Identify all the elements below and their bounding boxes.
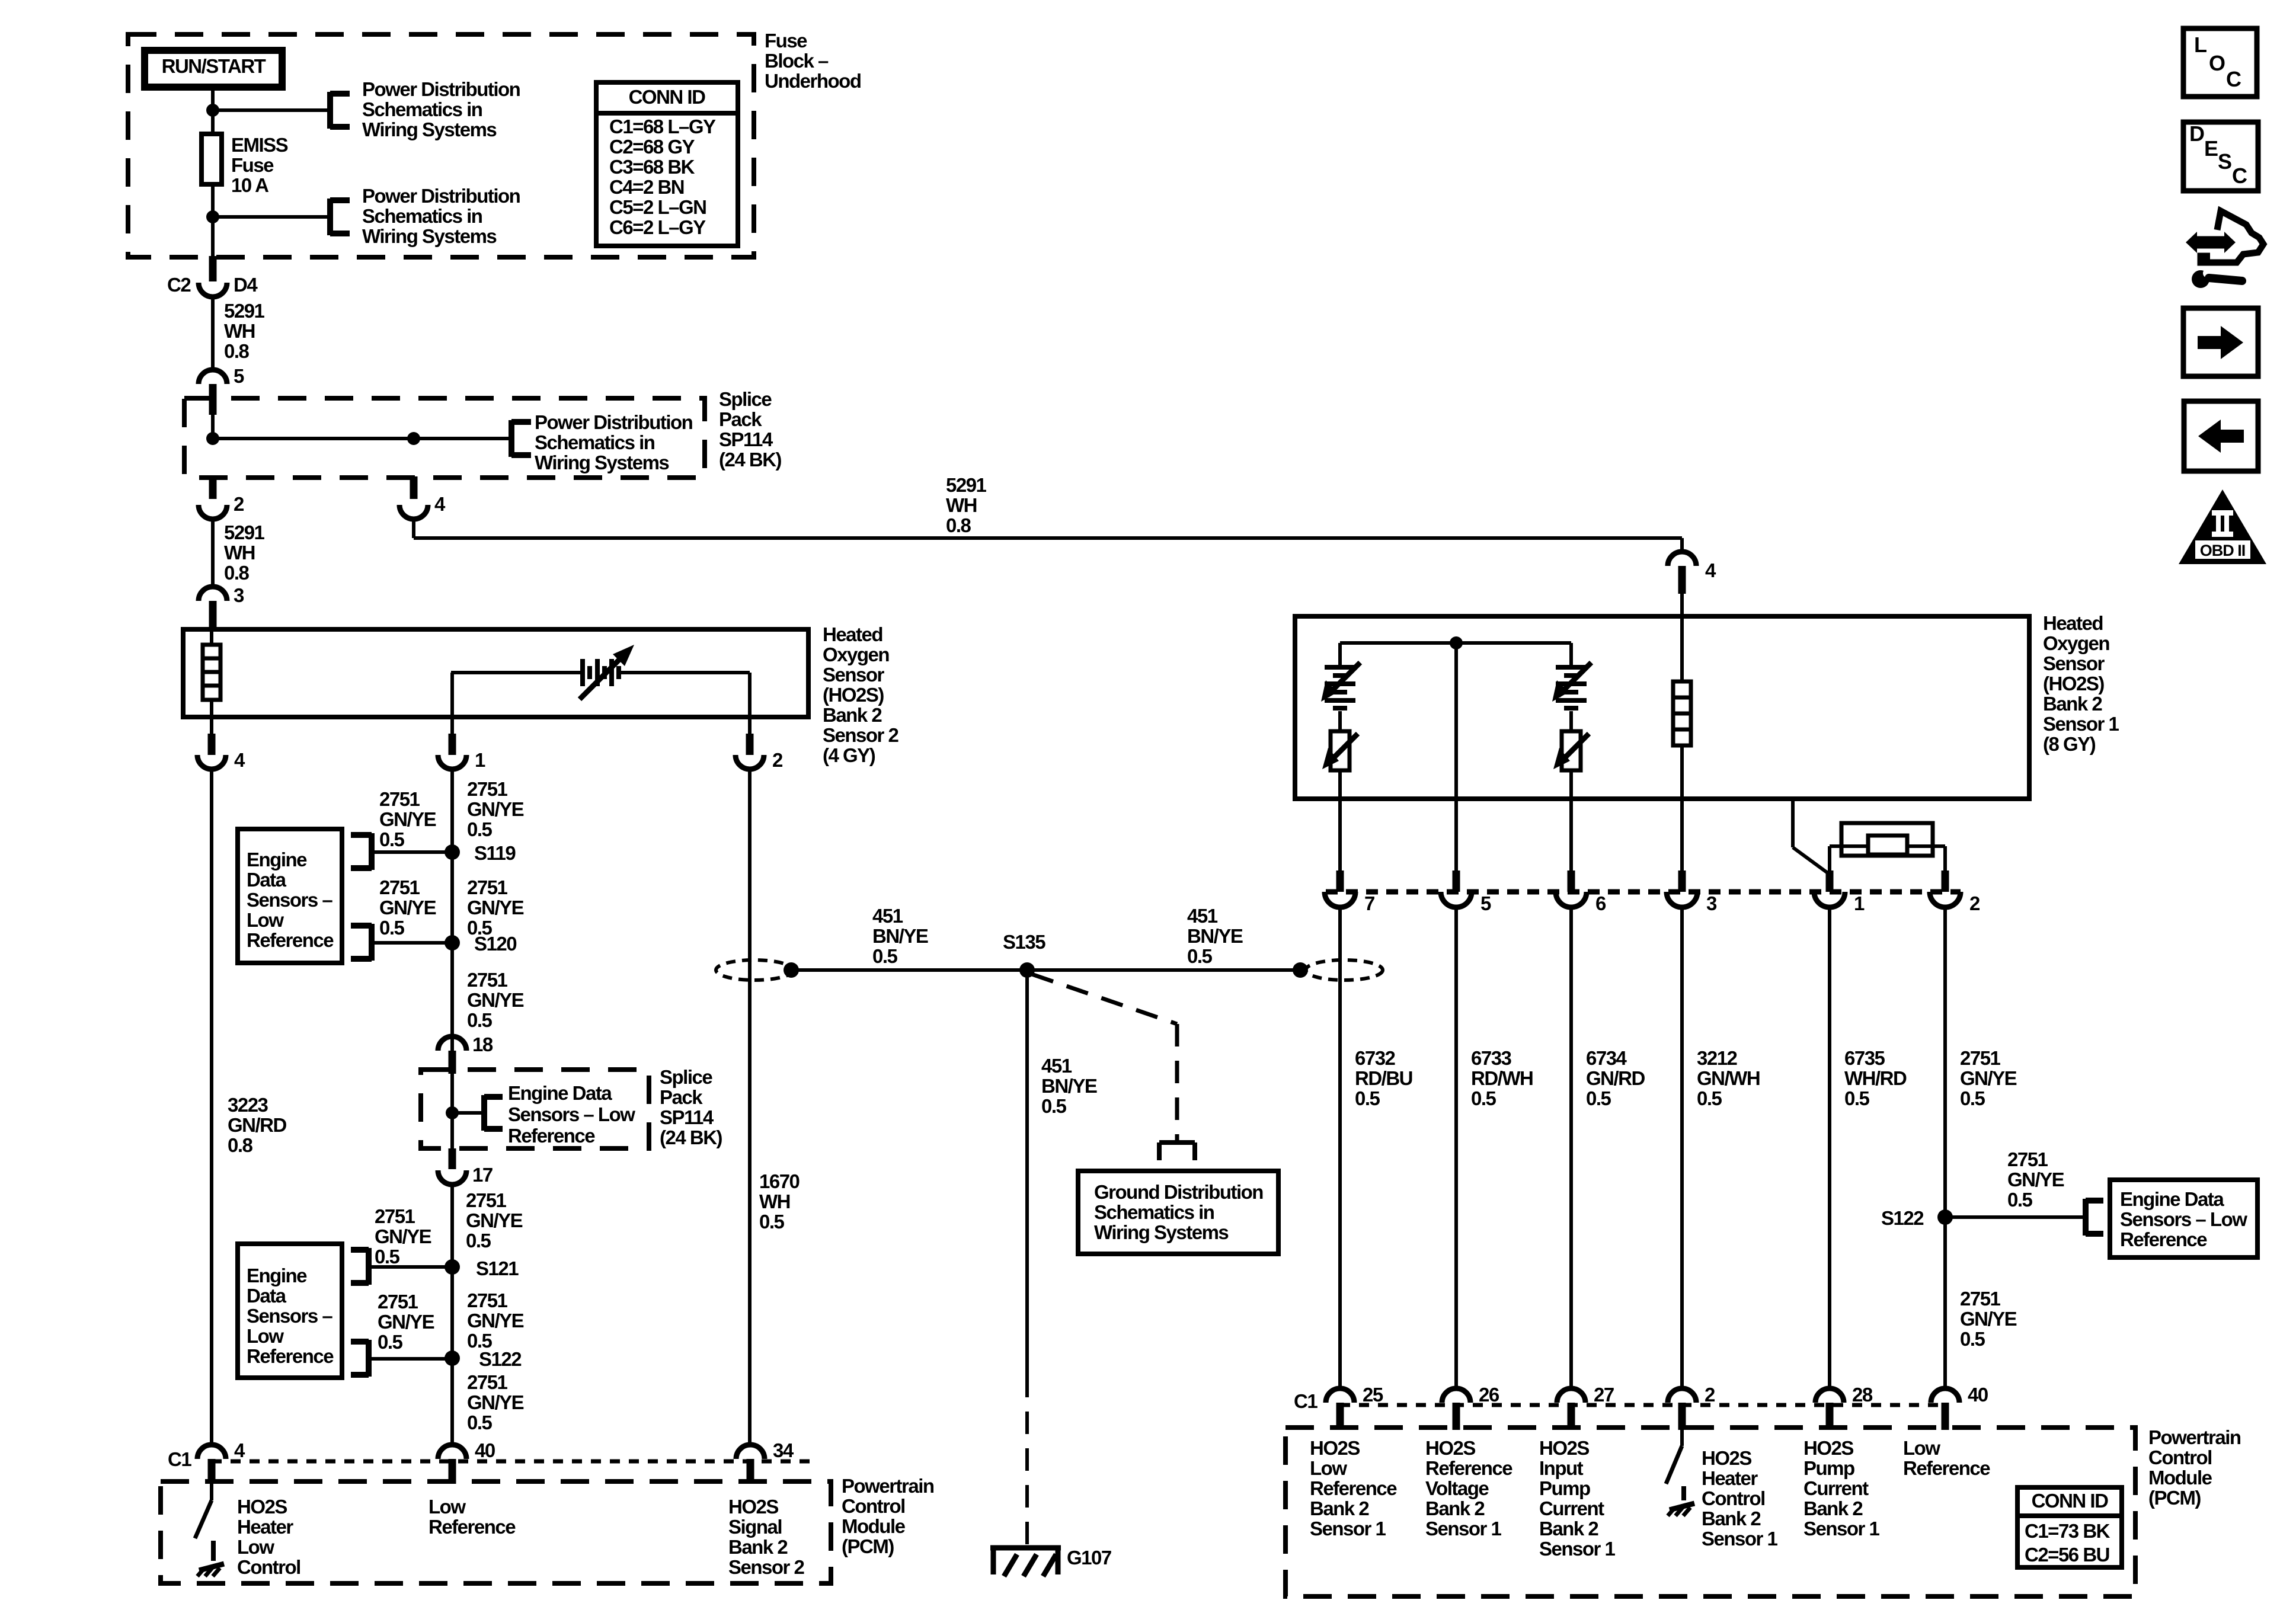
icon forward arrow box xyxy=(2183,308,2258,376)
svg-text:26: 26 xyxy=(1479,1384,1499,1406)
wire RUN/START to EMISS fuse xyxy=(211,90,215,134)
svg-text:Reference: Reference xyxy=(247,929,334,951)
svg-text:D: D xyxy=(2189,121,2204,146)
chassis ground (pcm left) xyxy=(199,1564,224,1570)
svg-text:34: 34 xyxy=(773,1439,794,1461)
svg-text:Schematics in: Schematics in xyxy=(1094,1201,1214,1223)
connector pin 18 xyxy=(438,1036,466,1051)
node junction on ignition feed lower xyxy=(206,210,219,223)
connector pin 3 stub xyxy=(209,601,217,629)
svg-text:10 A: 10 A xyxy=(231,174,268,196)
node splice S119 xyxy=(445,844,460,860)
wire 2751 GN/YE pin1 to S119 xyxy=(450,769,454,852)
connector pin 4 (splice) xyxy=(399,505,428,519)
wire internal top bus right sensor xyxy=(1340,641,1571,645)
connector sensor1 pin 1 stub xyxy=(1826,870,1834,892)
wire 2751 GN/YE pin2 to pin40 upper xyxy=(1943,907,1947,1217)
svg-text:2751: 2751 xyxy=(2007,1148,2048,1170)
svg-text:GN/YE: GN/YE xyxy=(1960,1067,2017,1089)
node junction on ignition feed upper xyxy=(206,104,219,117)
svg-text:SP114: SP114 xyxy=(660,1106,714,1128)
connector pin 17 stub xyxy=(449,1148,456,1169)
svg-text:6734: 6734 xyxy=(1586,1047,1627,1069)
sensing cell with arrow (pin 6 branch) xyxy=(1556,665,1587,670)
off-page bracket to S122 xyxy=(366,1340,372,1377)
svg-text:2751: 2751 xyxy=(1960,1288,2001,1310)
sensing cell with arrow (pin 7 branch) xyxy=(1325,665,1355,670)
wire splice SP114 bus xyxy=(213,437,511,440)
icon DESC box xyxy=(2183,122,2258,191)
svg-text:4: 4 xyxy=(234,749,245,771)
svg-text:Reference: Reference xyxy=(1310,1477,1397,1499)
connector pin C2-D4 stub xyxy=(209,256,217,281)
svg-text:2751: 2751 xyxy=(1960,1047,2001,1069)
svg-text:Sensor 2: Sensor 2 xyxy=(728,1556,805,1578)
svg-text:3212: 3212 xyxy=(1697,1047,1738,1069)
svg-text:0.5: 0.5 xyxy=(1960,1087,1985,1109)
svg-text:WH: WH xyxy=(224,320,255,342)
wire 1670 WH pin2 to pin34 xyxy=(748,769,752,1446)
CONN ID table (PCM) xyxy=(2017,1487,2122,1567)
svg-text:WH/RD: WH/RD xyxy=(1844,1067,1907,1089)
connector sensor1 pin 3 xyxy=(1667,892,1697,907)
svg-text:Bank 2: Bank 2 xyxy=(1803,1497,1863,1519)
svg-text:Input: Input xyxy=(1539,1457,1584,1479)
wire bracket to S119 xyxy=(372,850,452,854)
connector pcm pin 27 stub xyxy=(1568,1403,1575,1430)
chassis ground (pcm right) xyxy=(1670,1503,1694,1510)
ground G107 xyxy=(990,1545,1061,1551)
connector sensor1 pin 6 stub xyxy=(1568,870,1575,892)
wire S122 to pin 40 right xyxy=(1943,1217,1947,1390)
svg-text:Sensor 2: Sensor 2 xyxy=(823,724,899,746)
svg-text:Reference: Reference xyxy=(508,1125,595,1147)
svg-text:SP114: SP114 xyxy=(719,428,773,450)
svg-text:5291: 5291 xyxy=(224,300,265,322)
connector pcm left pin 4 stub xyxy=(208,1459,216,1484)
svg-text:E: E xyxy=(2204,136,2218,161)
connector sensor1 pin 2 xyxy=(1930,892,1961,907)
variable resistor (pin 7 branch) xyxy=(1338,711,1342,731)
off-page bracket power distribution 3 xyxy=(509,420,514,457)
connector sensor1 pin 5 stub xyxy=(1453,870,1460,892)
svg-text:Underhood: Underhood xyxy=(765,70,861,92)
wire S121 to S122 xyxy=(450,1267,454,1358)
svg-text:0.5: 0.5 xyxy=(759,1211,785,1233)
svg-text:Sensor 1: Sensor 1 xyxy=(1539,1538,1616,1560)
wire to power distribution callout 2 xyxy=(213,215,330,219)
svg-text:0.8: 0.8 xyxy=(228,1134,253,1156)
connector sensor2 pin 2 xyxy=(736,755,764,769)
engine data sensors box 2 xyxy=(238,1244,342,1378)
svg-text:451: 451 xyxy=(1041,1055,1072,1077)
svg-text:O: O xyxy=(2209,51,2225,75)
connector pin 4 stub (splice) xyxy=(410,476,418,499)
svg-text:Power Distribution: Power Distribution xyxy=(535,411,693,433)
svg-text:EMISS: EMISS xyxy=(231,134,288,156)
svg-text:HO2S: HO2S xyxy=(728,1496,778,1518)
connector sensor1 pin 2 stub xyxy=(1942,870,1949,892)
svg-text:Wiring Systems: Wiring Systems xyxy=(362,119,496,140)
svg-text:Wiring Systems: Wiring Systems xyxy=(535,452,669,473)
svg-text:Data: Data xyxy=(247,1285,287,1307)
svg-text:GN/YE: GN/YE xyxy=(467,897,524,918)
svg-text:0.5: 0.5 xyxy=(467,818,493,840)
svg-text:Reference: Reference xyxy=(2120,1228,2207,1250)
splice pack SP114 dashed box xyxy=(184,398,705,478)
svg-text:17: 17 xyxy=(472,1164,493,1186)
svg-text:0.5: 0.5 xyxy=(872,945,898,967)
svg-text:Block –: Block – xyxy=(765,50,829,72)
svg-text:2751: 2751 xyxy=(375,1205,415,1227)
svg-text:WH: WH xyxy=(759,1190,790,1212)
svg-text:CONN ID: CONN ID xyxy=(629,86,706,108)
variable resistor (pin 6 branch) xyxy=(1569,711,1573,731)
svg-text:6732: 6732 xyxy=(1355,1047,1396,1069)
off-page bracket engine data right xyxy=(2083,1199,2089,1236)
svg-text:Bank 2: Bank 2 xyxy=(1310,1497,1369,1519)
connector sensor1 pin 7 stub xyxy=(1336,870,1344,892)
svg-text:6: 6 xyxy=(1595,892,1606,914)
connector pin 4 right stub xyxy=(1678,566,1686,594)
icon back arrow box xyxy=(2184,401,2258,471)
svg-text:Power Distribution: Power Distribution xyxy=(362,78,520,100)
svg-text:GN/YE: GN/YE xyxy=(466,1209,523,1231)
connector pcm pin 40 xyxy=(1931,1388,1959,1403)
svg-text:GN/YE: GN/YE xyxy=(378,1311,434,1333)
svg-text:WH: WH xyxy=(224,542,255,564)
svg-text:Oxygen: Oxygen xyxy=(823,644,889,665)
svg-text:Current: Current xyxy=(1539,1497,1604,1519)
svg-text:C1: C1 xyxy=(168,1448,191,1470)
svg-text:Low: Low xyxy=(247,909,284,931)
svg-text:HO2S: HO2S xyxy=(1425,1437,1475,1459)
icon LOC box xyxy=(2183,28,2257,97)
svg-text:0.5: 0.5 xyxy=(1471,1087,1496,1109)
svg-text:4: 4 xyxy=(434,493,446,515)
svg-text:HO2S: HO2S xyxy=(237,1496,287,1518)
connector pcm left pin 4 xyxy=(197,1445,226,1459)
svg-text:S121: S121 xyxy=(476,1257,519,1279)
wire S119 to S120 xyxy=(450,852,454,943)
svg-text:GN/YE: GN/YE xyxy=(2007,1169,2064,1190)
connector sensor1 pin 6 xyxy=(1556,892,1587,907)
connector sensor1 pin 3 stub xyxy=(1678,870,1686,892)
svg-text:Bank 2: Bank 2 xyxy=(1702,1508,1761,1529)
pcm right connector dotted line xyxy=(1340,1403,1945,1407)
svg-text:Bank 2: Bank 2 xyxy=(823,704,882,726)
connector pcm pin 26 xyxy=(1442,1388,1470,1403)
svg-text:(PCM): (PCM) xyxy=(842,1535,894,1557)
wire 6735 WH/RD xyxy=(1828,907,1831,1390)
wire splice2 to bracket xyxy=(452,1111,484,1115)
svg-text:RUN/START: RUN/START xyxy=(162,55,266,77)
svg-text:Sensor 1: Sensor 1 xyxy=(2043,713,2119,735)
connector pin 3 xyxy=(199,587,227,601)
svg-text:Sensors –: Sensors – xyxy=(247,1305,332,1327)
svg-text:Module: Module xyxy=(842,1515,906,1537)
svg-text:Sensor 1: Sensor 1 xyxy=(1425,1518,1502,1540)
svg-text:Current: Current xyxy=(1803,1477,1869,1499)
svg-text:40: 40 xyxy=(475,1439,495,1461)
node splice S135 xyxy=(1019,962,1035,978)
svg-text:Signal: Signal xyxy=(728,1516,782,1538)
svg-text:25: 25 xyxy=(1363,1384,1383,1406)
wire 5291 WH splice to right sensor xyxy=(412,518,415,538)
svg-text:Control: Control xyxy=(2148,1446,2212,1468)
svg-text:4: 4 xyxy=(1705,559,1716,581)
svg-text:2751: 2751 xyxy=(467,1289,508,1311)
wire fuse left xyxy=(1830,844,1868,848)
svg-text:5: 5 xyxy=(1480,892,1491,914)
svg-text:(24 BK): (24 BK) xyxy=(719,449,782,471)
RUN/START box xyxy=(145,50,282,87)
svg-text:0.5: 0.5 xyxy=(467,1009,493,1031)
fuse EMISS 10A body xyxy=(202,134,222,184)
svg-text:Low: Low xyxy=(1903,1437,1940,1459)
svg-text:0.5: 0.5 xyxy=(379,828,405,850)
svg-text:Data: Data xyxy=(247,869,287,891)
splice pack SP114 dashed box 2 xyxy=(421,1070,649,1148)
svg-text:1670: 1670 xyxy=(759,1170,800,1192)
svg-text:(4 GY): (4 GY) xyxy=(823,744,875,766)
svg-text:HO2S: HO2S xyxy=(1539,1437,1589,1459)
svg-text:0.5: 0.5 xyxy=(1697,1087,1722,1109)
wire elbow box to pin1 xyxy=(1791,799,1795,847)
connector pcm pin 2 stub xyxy=(1678,1403,1686,1430)
wire dashed to ground distribution xyxy=(1032,974,1177,1024)
wire 451 BN/YE right xyxy=(1027,968,1300,972)
sensor1 connector dashed line xyxy=(1326,889,1961,895)
connector sensor1 pin 5 xyxy=(1441,892,1472,907)
connector pcm pin 26 stub xyxy=(1453,1403,1460,1430)
svg-text:5291: 5291 xyxy=(224,521,265,543)
wire 5291 WH pin2 to pin3 xyxy=(211,518,215,587)
svg-text:(HO2S): (HO2S) xyxy=(2043,673,2104,695)
svg-text:Sensors – Low: Sensors – Low xyxy=(508,1103,635,1125)
connector sensor2 pin 4 xyxy=(197,755,226,769)
svg-text:Reference: Reference xyxy=(247,1345,334,1367)
connector sensor1 pin 1 xyxy=(1814,892,1845,907)
connector pcm pin 2 xyxy=(1668,1388,1696,1403)
node splice SP114-2 junction xyxy=(446,1106,459,1119)
svg-text:GN/YE: GN/YE xyxy=(467,989,524,1011)
svg-text:Engine Data: Engine Data xyxy=(508,1082,612,1104)
svg-text:C2: C2 xyxy=(167,274,191,296)
off-page bracket engine data (splice2) xyxy=(481,1095,487,1131)
connector pin 5 stub xyxy=(209,384,217,415)
svg-text:Sensor 1: Sensor 1 xyxy=(1310,1518,1386,1540)
off-page bracket power distribution 1 xyxy=(327,92,333,129)
connector sensor2 pin 1 xyxy=(438,755,466,769)
connector pcm pin 28 stub xyxy=(1826,1403,1834,1430)
reference element outer box xyxy=(1841,823,1933,856)
svg-text:Schematics in: Schematics in xyxy=(362,98,482,120)
svg-text:GN/YE: GN/YE xyxy=(375,1225,431,1247)
connector pcm left pin 40 stub xyxy=(449,1459,456,1484)
svg-text:Sensors – Low: Sensors – Low xyxy=(2120,1208,2247,1230)
svg-text:C5=2 L–GN: C5=2 L–GN xyxy=(609,196,706,218)
svg-text:0.5: 0.5 xyxy=(1844,1087,1870,1109)
wire 6732 RD/BU xyxy=(1338,907,1342,1390)
off-page bracket power distribution 2 xyxy=(327,199,333,235)
svg-text:Engine: Engine xyxy=(247,849,307,870)
svg-text:(8 GY): (8 GY) xyxy=(2043,733,2096,755)
wire S120 to pin 18 xyxy=(450,943,454,1051)
connector pin 2 stub xyxy=(209,476,217,499)
svg-text:7: 7 xyxy=(1364,892,1374,914)
node splice S122 left xyxy=(445,1350,460,1366)
svg-text:2: 2 xyxy=(772,749,783,771)
svg-text:0.5: 0.5 xyxy=(467,1412,493,1433)
wire pin5 internal xyxy=(1454,643,1458,870)
svg-text:Bank 2: Bank 2 xyxy=(2043,693,2102,715)
svg-text:(24 BK): (24 BK) xyxy=(660,1126,722,1148)
svg-text:0.8: 0.8 xyxy=(224,562,250,584)
wire 6734 GN/RD xyxy=(1569,907,1573,1390)
svg-text:S135: S135 xyxy=(1003,931,1045,953)
svg-text:RD/BU: RD/BU xyxy=(1355,1067,1412,1089)
pcm left connector dotted line xyxy=(212,1460,812,1464)
svg-text:GN/YE: GN/YE xyxy=(1960,1308,2017,1330)
node internal bus junction xyxy=(1450,636,1463,649)
svg-text:BN/YE: BN/YE xyxy=(872,925,928,947)
wire 5291 WH C2 to splice pack xyxy=(211,296,215,369)
wire inside splice 2 xyxy=(450,1074,454,1148)
connector pin 4 (right sensor) xyxy=(1668,552,1696,566)
svg-text:0.5: 0.5 xyxy=(1960,1328,1985,1350)
svg-text:C1: C1 xyxy=(1294,1390,1318,1412)
svg-text:40: 40 xyxy=(1968,1384,1988,1406)
svg-text:Schematics in: Schematics in xyxy=(362,205,482,227)
off-page bracket to S121 xyxy=(366,1248,372,1285)
svg-text:27: 27 xyxy=(1594,1384,1614,1406)
svg-text:Fuse: Fuse xyxy=(231,154,274,176)
powertrain control module right dashed box xyxy=(1285,1428,2135,1596)
connector pcm pin 25 xyxy=(1326,1388,1354,1403)
svg-text:18: 18 xyxy=(472,1033,493,1055)
svg-text:Oxygen: Oxygen xyxy=(2043,632,2109,654)
svg-text:0.8: 0.8 xyxy=(224,340,250,362)
svg-text:C2=56 BU: C2=56 BU xyxy=(2025,1544,2109,1566)
svg-text:2751: 2751 xyxy=(467,876,508,898)
powertrain control module left dashed box xyxy=(161,1481,831,1583)
connector sensor2 pin 2 stub xyxy=(748,717,752,734)
svg-text:6735: 6735 xyxy=(1844,1047,1885,1069)
connector pcm pin 40 stub xyxy=(1942,1403,1949,1430)
connector pin 17 xyxy=(438,1170,466,1185)
svg-text:Low: Low xyxy=(247,1325,284,1347)
node splice SP114 junction 2 xyxy=(407,432,420,445)
svg-text:BN/YE: BN/YE xyxy=(1187,925,1243,947)
svg-text:C6=2 L–GY: C6=2 L–GY xyxy=(609,216,706,238)
svg-text:28: 28 xyxy=(1852,1384,1873,1406)
svg-text:C2=68 GY: C2=68 GY xyxy=(609,136,695,158)
svg-text:Reference: Reference xyxy=(428,1516,516,1538)
wire 6733 RD/WH xyxy=(1454,907,1458,1390)
svg-text:Control: Control xyxy=(842,1495,905,1517)
svg-text:HO2S: HO2S xyxy=(1310,1437,1360,1459)
svg-text:Pack: Pack xyxy=(660,1086,703,1108)
svg-text:G107: G107 xyxy=(1067,1547,1111,1569)
switch HO2S heater low control xyxy=(210,1484,213,1500)
svg-text:GN/YE: GN/YE xyxy=(379,808,436,830)
wire into splice SP114 xyxy=(211,415,215,439)
connector pcm left pin 34 stub xyxy=(747,1459,754,1484)
svg-text:S120: S120 xyxy=(474,933,516,955)
wire fuse right xyxy=(1907,844,1945,848)
engine data sensors box right xyxy=(2110,1180,2257,1257)
off-page bracket to S119 xyxy=(369,833,375,870)
svg-text:S122: S122 xyxy=(1881,1207,1924,1229)
svg-text:0.5: 0.5 xyxy=(378,1331,403,1353)
svg-text:Wiring Systems: Wiring Systems xyxy=(1094,1221,1228,1243)
svg-text:HO2S: HO2S xyxy=(1702,1447,1751,1469)
node splice S121 xyxy=(445,1259,460,1275)
svg-text:Low: Low xyxy=(1310,1457,1347,1479)
svg-text:Voltage: Voltage xyxy=(1425,1477,1489,1499)
svg-text:0.5: 0.5 xyxy=(1355,1087,1380,1109)
wire bracket to S122 xyxy=(369,1357,452,1361)
svg-text:4: 4 xyxy=(234,1439,245,1461)
heated oxygen sensor bank2 sensor1 box xyxy=(1295,616,2029,799)
svg-text:3223: 3223 xyxy=(228,1094,268,1116)
connector pcm pin 25 stub xyxy=(1336,1403,1344,1430)
svg-text:RD/WH: RD/WH xyxy=(1471,1067,1533,1089)
svg-text:GN/RD: GN/RD xyxy=(1586,1067,1645,1089)
svg-text:2751: 2751 xyxy=(378,1291,418,1313)
svg-text:Low: Low xyxy=(237,1536,274,1558)
connector pin C2-D4 xyxy=(199,283,227,297)
svg-text:Engine Data: Engine Data xyxy=(2120,1188,2224,1210)
svg-text:0.8: 0.8 xyxy=(946,514,971,536)
connector sensor2 pin 1 stub xyxy=(450,717,454,734)
node splice SP114 junction 1 xyxy=(206,432,219,445)
svg-text:Splice: Splice xyxy=(660,1066,712,1088)
svg-text:GN/WH: GN/WH xyxy=(1697,1067,1760,1089)
svg-text:Bank 2: Bank 2 xyxy=(1539,1518,1598,1540)
svg-text:Fuse: Fuse xyxy=(765,30,807,52)
svg-text:GN/YE: GN/YE xyxy=(467,1310,524,1332)
svg-text:2: 2 xyxy=(234,493,244,515)
svg-text:Heated: Heated xyxy=(823,623,882,645)
svg-text:5291: 5291 xyxy=(946,474,987,496)
svg-text:451: 451 xyxy=(1187,905,1218,927)
wire bracket to S121 xyxy=(369,1265,452,1269)
svg-text:GN/RD: GN/RD xyxy=(228,1114,287,1136)
svg-text:Powertrain: Powertrain xyxy=(2148,1426,2241,1448)
svg-text:1: 1 xyxy=(1854,892,1865,914)
svg-text:Bank 2: Bank 2 xyxy=(728,1536,788,1558)
svg-text:Low: Low xyxy=(428,1496,466,1518)
svg-text:Pump: Pump xyxy=(1539,1477,1590,1499)
svg-text:2751: 2751 xyxy=(379,788,420,810)
svg-text:WH: WH xyxy=(946,494,977,516)
svg-text:2751: 2751 xyxy=(467,1371,508,1393)
switch HO2S heater control xyxy=(1680,1430,1684,1446)
CONN ID table (fuse block) xyxy=(596,82,738,246)
wire 451 BN/YE left xyxy=(791,968,1027,972)
wire 451 BN/YE to G107 dashed xyxy=(1025,1375,1029,1545)
connector pin 18 stub xyxy=(449,1051,456,1074)
svg-text:Power Distribution: Power Distribution xyxy=(362,185,520,207)
connector pcm pin 27 xyxy=(1557,1388,1585,1403)
svg-text:0.5: 0.5 xyxy=(1041,1095,1067,1117)
svg-text:S119: S119 xyxy=(474,842,516,864)
wire pin17 to S121 xyxy=(450,1185,454,1267)
svg-text:Module: Module xyxy=(2148,1467,2212,1489)
node splice S122 right xyxy=(1937,1209,1953,1225)
